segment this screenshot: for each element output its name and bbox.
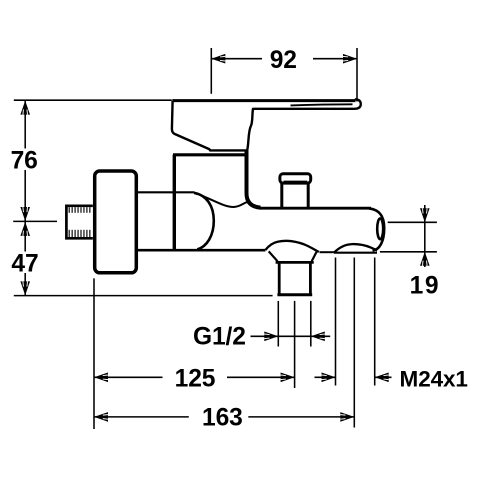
- shower outlet hump base: [334, 252, 377, 254]
- knob body right edge: [307, 183, 310, 207]
- arrow 92 left: [211, 54, 225, 64]
- arrow 125 left: [94, 373, 108, 383]
- arrow M24 right: [375, 373, 389, 383]
- body and neck bottom line: [138, 249, 266, 252]
- wall thread pipe outline: [66, 206, 92, 239]
- arrow 76 bottom: [20, 207, 30, 221]
- wall escutcheon flange: [95, 171, 137, 273]
- G1/2 outlet bottom face: [277, 293, 312, 296]
- dim 163 line left segment: [94, 416, 189, 418]
- arrow 92 right: [343, 54, 357, 64]
- axis center line left: [13, 220, 57, 222]
- arrow 125 right: [281, 373, 295, 383]
- dim 76-47 vertical line lower: [24, 273, 26, 295]
- svg-text:47: 47: [11, 251, 38, 278]
- dim 125 line right segment: [227, 376, 295, 378]
- spout hump over G1/2 outlet: [265, 241, 319, 252]
- M24 dim right tail: [375, 376, 392, 378]
- bottom line between humps: [320, 251, 334, 253]
- dim 125 line left segment: [94, 376, 163, 378]
- body spherical bulge: [194, 193, 214, 250]
- dim 92 right extension line: [356, 48, 358, 102]
- G1/2 dim left tail: [251, 335, 279, 337]
- dim 92 line right segment: [313, 58, 357, 60]
- dim 163 line right segment: [248, 416, 354, 418]
- housing right edge curving into tube top: [247, 150, 261, 207]
- svg-text:M24x1: M24x1: [400, 366, 468, 391]
- arrow 19 bottom: [420, 252, 430, 266]
- body wave contour: [195, 193, 248, 207]
- dim 19 vertical line: [424, 205, 426, 267]
- body left edge: [173, 155, 176, 250]
- dim 19 ref line top: [388, 221, 437, 223]
- shower outlet hump arc: [334, 244, 377, 253]
- knob cap inner line: [284, 180, 308, 182]
- svg-text:125: 125: [175, 366, 216, 393]
- dim 19 ref line bottom: [380, 251, 437, 253]
- wall thread hatch bottom band: [69, 230, 90, 237]
- dim 76-47 vertical line upper: [24, 101, 26, 149]
- handle body outline: [172, 101, 253, 150]
- G1/2 outlet thread right edge: [309, 262, 312, 294]
- arrow G1/2 right: [311, 332, 325, 342]
- arrow 76 top: [20, 101, 30, 115]
- G1/2 outlet thread left edge: [278, 262, 281, 294]
- arrow M24 left: [322, 373, 336, 383]
- arrow G1/2 left: [264, 332, 278, 342]
- outlet collar right slant: [312, 252, 317, 261]
- outlet collar left slant: [269, 251, 278, 261]
- outlet center extension line: [294, 301, 296, 388]
- lever underside inner line: [291, 104, 353, 105]
- outlet collar base line: [276, 261, 314, 264]
- neck top line: [138, 191, 195, 193]
- svg-text:76: 76: [11, 148, 38, 175]
- cartridge housing top line: [173, 153, 247, 156]
- arrow 47 bottom: [20, 281, 30, 295]
- dim 92 left extension line: [210, 48, 212, 94]
- G1/2 right extension line: [310, 301, 312, 347]
- lever top line: [172, 99, 355, 102]
- arrow 47 top: [20, 222, 30, 236]
- M24 left extension line: [335, 258, 337, 386]
- G1/2 dim middle segment: [278, 335, 311, 337]
- shower outlet center extension line: [353, 258, 355, 428]
- svg-text:92: 92: [270, 47, 297, 74]
- tube right end cap: [369, 208, 384, 250]
- svg-text:G1/2: G1/2: [193, 324, 246, 351]
- ref line at outlet bottom for 47: [14, 295, 273, 297]
- arrow 163 right: [340, 412, 354, 422]
- G1/2 dim right tail: [311, 335, 330, 337]
- tube top line: [259, 207, 371, 210]
- arrow notches: [220, 56, 225, 61]
- lever end cap and bottom line: [253, 99, 361, 109]
- svg-text:163: 163: [202, 405, 243, 432]
- svg-text:19: 19: [410, 272, 441, 299]
- tube right end inner ellipse: [377, 218, 383, 239]
- diverter knob cap: [280, 174, 311, 183]
- M24 right extension line: [374, 258, 376, 386]
- dim 76-47 vertical line middle: [24, 170, 26, 252]
- arrow 163 left: [94, 412, 108, 422]
- ref line at handle top for 76: [14, 99, 172, 101]
- M24 dim left tail: [315, 376, 336, 378]
- knob body left edge: [280, 183, 283, 207]
- dim 125-163 left extension line: [93, 278, 95, 429]
- G1/2 left extension line: [277, 301, 279, 347]
- wall thread hatch top band: [69, 207, 90, 213]
- dim 92 line left segment: [211, 58, 262, 60]
- arrow 19 top: [420, 208, 430, 222]
